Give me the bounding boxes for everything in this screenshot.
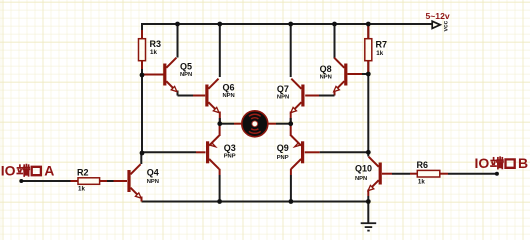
svg-text:vcc: vcc: [443, 20, 450, 31]
svg-text:NPN: NPN: [147, 179, 159, 185]
svg-text:Q7: Q7: [277, 84, 289, 94]
svg-text:B: B: [518, 155, 528, 171]
svg-text:PNP: PNP: [277, 155, 289, 161]
svg-text:Q6: Q6: [223, 83, 235, 93]
svg-text:Q5: Q5: [180, 61, 192, 71]
svg-text:R6: R6: [417, 160, 429, 170]
svg-text:1k: 1k: [78, 185, 85, 192]
svg-text:1k: 1k: [418, 179, 425, 186]
svg-text:PNP: PNP: [224, 153, 236, 159]
svg-text:R7: R7: [376, 39, 388, 49]
svg-text:1k: 1k: [150, 49, 157, 56]
svg-text:Q9: Q9: [277, 143, 289, 153]
svg-text:Q3: Q3: [224, 143, 236, 153]
svg-text:Q4: Q4: [147, 168, 159, 178]
svg-text:R3: R3: [150, 39, 162, 49]
svg-text:NPN: NPN: [180, 72, 192, 78]
svg-text:A: A: [44, 163, 54, 179]
svg-text:Q8: Q8: [320, 64, 332, 74]
svg-text:NPN: NPN: [320, 74, 332, 80]
svg-text:5~12v: 5~12v: [426, 11, 450, 21]
svg-text:IO: IO: [475, 155, 490, 171]
svg-text:R2: R2: [77, 167, 89, 177]
svg-text:NPN: NPN: [355, 176, 367, 182]
svg-text:IO: IO: [1, 163, 16, 179]
svg-text:1k: 1k: [376, 50, 383, 57]
svg-text:Q10: Q10: [355, 164, 372, 174]
svg-text:NPN: NPN: [277, 94, 289, 100]
svg-text:NPN: NPN: [223, 93, 235, 99]
